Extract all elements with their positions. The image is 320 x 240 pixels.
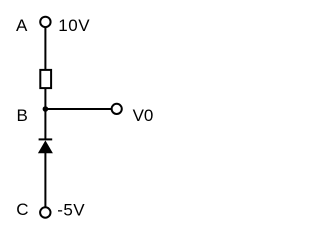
svg-text:10V: 10V [58,16,90,35]
wire B to diode [44,109,46,140]
svg-text:A: A [16,16,28,35]
node B junction dot [43,106,49,112]
wire resistor to node B [44,89,46,110]
diode D1 triangle [38,140,53,153]
wire B to V0 terminal [45,108,111,110]
svg-text:V0: V0 [133,106,154,125]
wire A to resistor [44,27,46,70]
terminal C [40,207,50,217]
svg-text:C: C [16,200,28,219]
terminal V0 [112,104,122,114]
diode D1 cathode bar [39,138,53,140]
svg-text:B: B [17,106,28,125]
wire diode to terminal C [44,153,46,207]
svg-text:-5V: -5V [57,201,85,220]
terminal A [40,17,50,27]
resistor R1 [40,70,51,88]
